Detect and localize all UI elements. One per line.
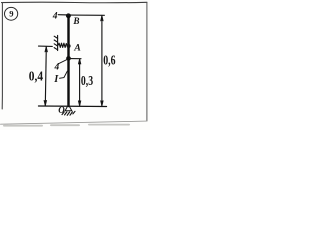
figure number circle <box>5 7 18 20</box>
svg-text:I: I <box>53 74 59 85</box>
svg-text:A: A <box>73 42 81 53</box>
dimension line 0,6 <box>101 16 103 107</box>
wall for spring <box>54 36 57 51</box>
leader from glyph 4b to C dot <box>59 60 67 64</box>
node C dot (0.3 point) <box>66 56 71 61</box>
pivot hatching <box>62 111 75 115</box>
pivot triangle at O <box>65 105 72 111</box>
svg-text:0,3: 0,3 <box>81 73 93 88</box>
frame right border <box>146 3 148 121</box>
svg-text:B: B <box>72 16 79 26</box>
frame top border <box>2 1 148 4</box>
dimension line 0,3 <box>78 59 80 106</box>
extension tick at C for 0,3 <box>70 58 81 60</box>
line from glyph 4 to B extension <box>58 14 70 16</box>
spring between wall and rod at A <box>58 43 68 47</box>
node B dot <box>66 13 71 18</box>
frame left border <box>1 3 3 110</box>
ground line at O <box>39 105 107 108</box>
dimension line 0,4 <box>44 47 47 106</box>
extension line B to 0,6 <box>70 14 104 16</box>
svg-text:9: 9 <box>9 9 13 19</box>
extension tick at A level for 0,4 <box>39 45 53 47</box>
svg-text:0,6: 0,6 <box>103 53 115 68</box>
leader line for label I <box>60 71 68 78</box>
bottom page smudge <box>3 124 130 127</box>
frame bottom border <box>1 121 148 124</box>
svg-text:4: 4 <box>52 12 58 22</box>
rod OB <box>67 16 69 106</box>
node A dot <box>67 44 71 48</box>
svg-text:4: 4 <box>54 62 60 72</box>
svg-text:O: O <box>58 105 65 115</box>
svg-text:0,4: 0,4 <box>29 68 43 83</box>
